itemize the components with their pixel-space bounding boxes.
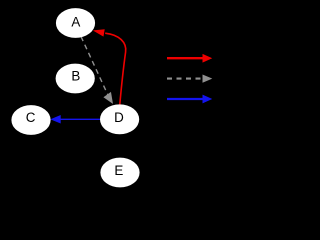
node A (56, 8, 95, 38)
edge A->D dashed gray (81, 37, 112, 103)
node C (11, 105, 50, 135)
legend blue arrow (167, 95, 211, 102)
svg-text:D: D (114, 110, 124, 125)
node B (56, 64, 95, 94)
legend red arrow (167, 55, 211, 62)
svg-text:C: C (26, 110, 36, 125)
edge D->C blue (52, 116, 101, 123)
edge D->A red curve (95, 30, 126, 105)
svg-text:B: B (71, 69, 80, 84)
legend gray dashed arrow (167, 75, 211, 82)
svg-text:A: A (71, 15, 80, 30)
node E (100, 158, 139, 188)
svg-text:E: E (114, 163, 123, 178)
node D (100, 104, 139, 134)
